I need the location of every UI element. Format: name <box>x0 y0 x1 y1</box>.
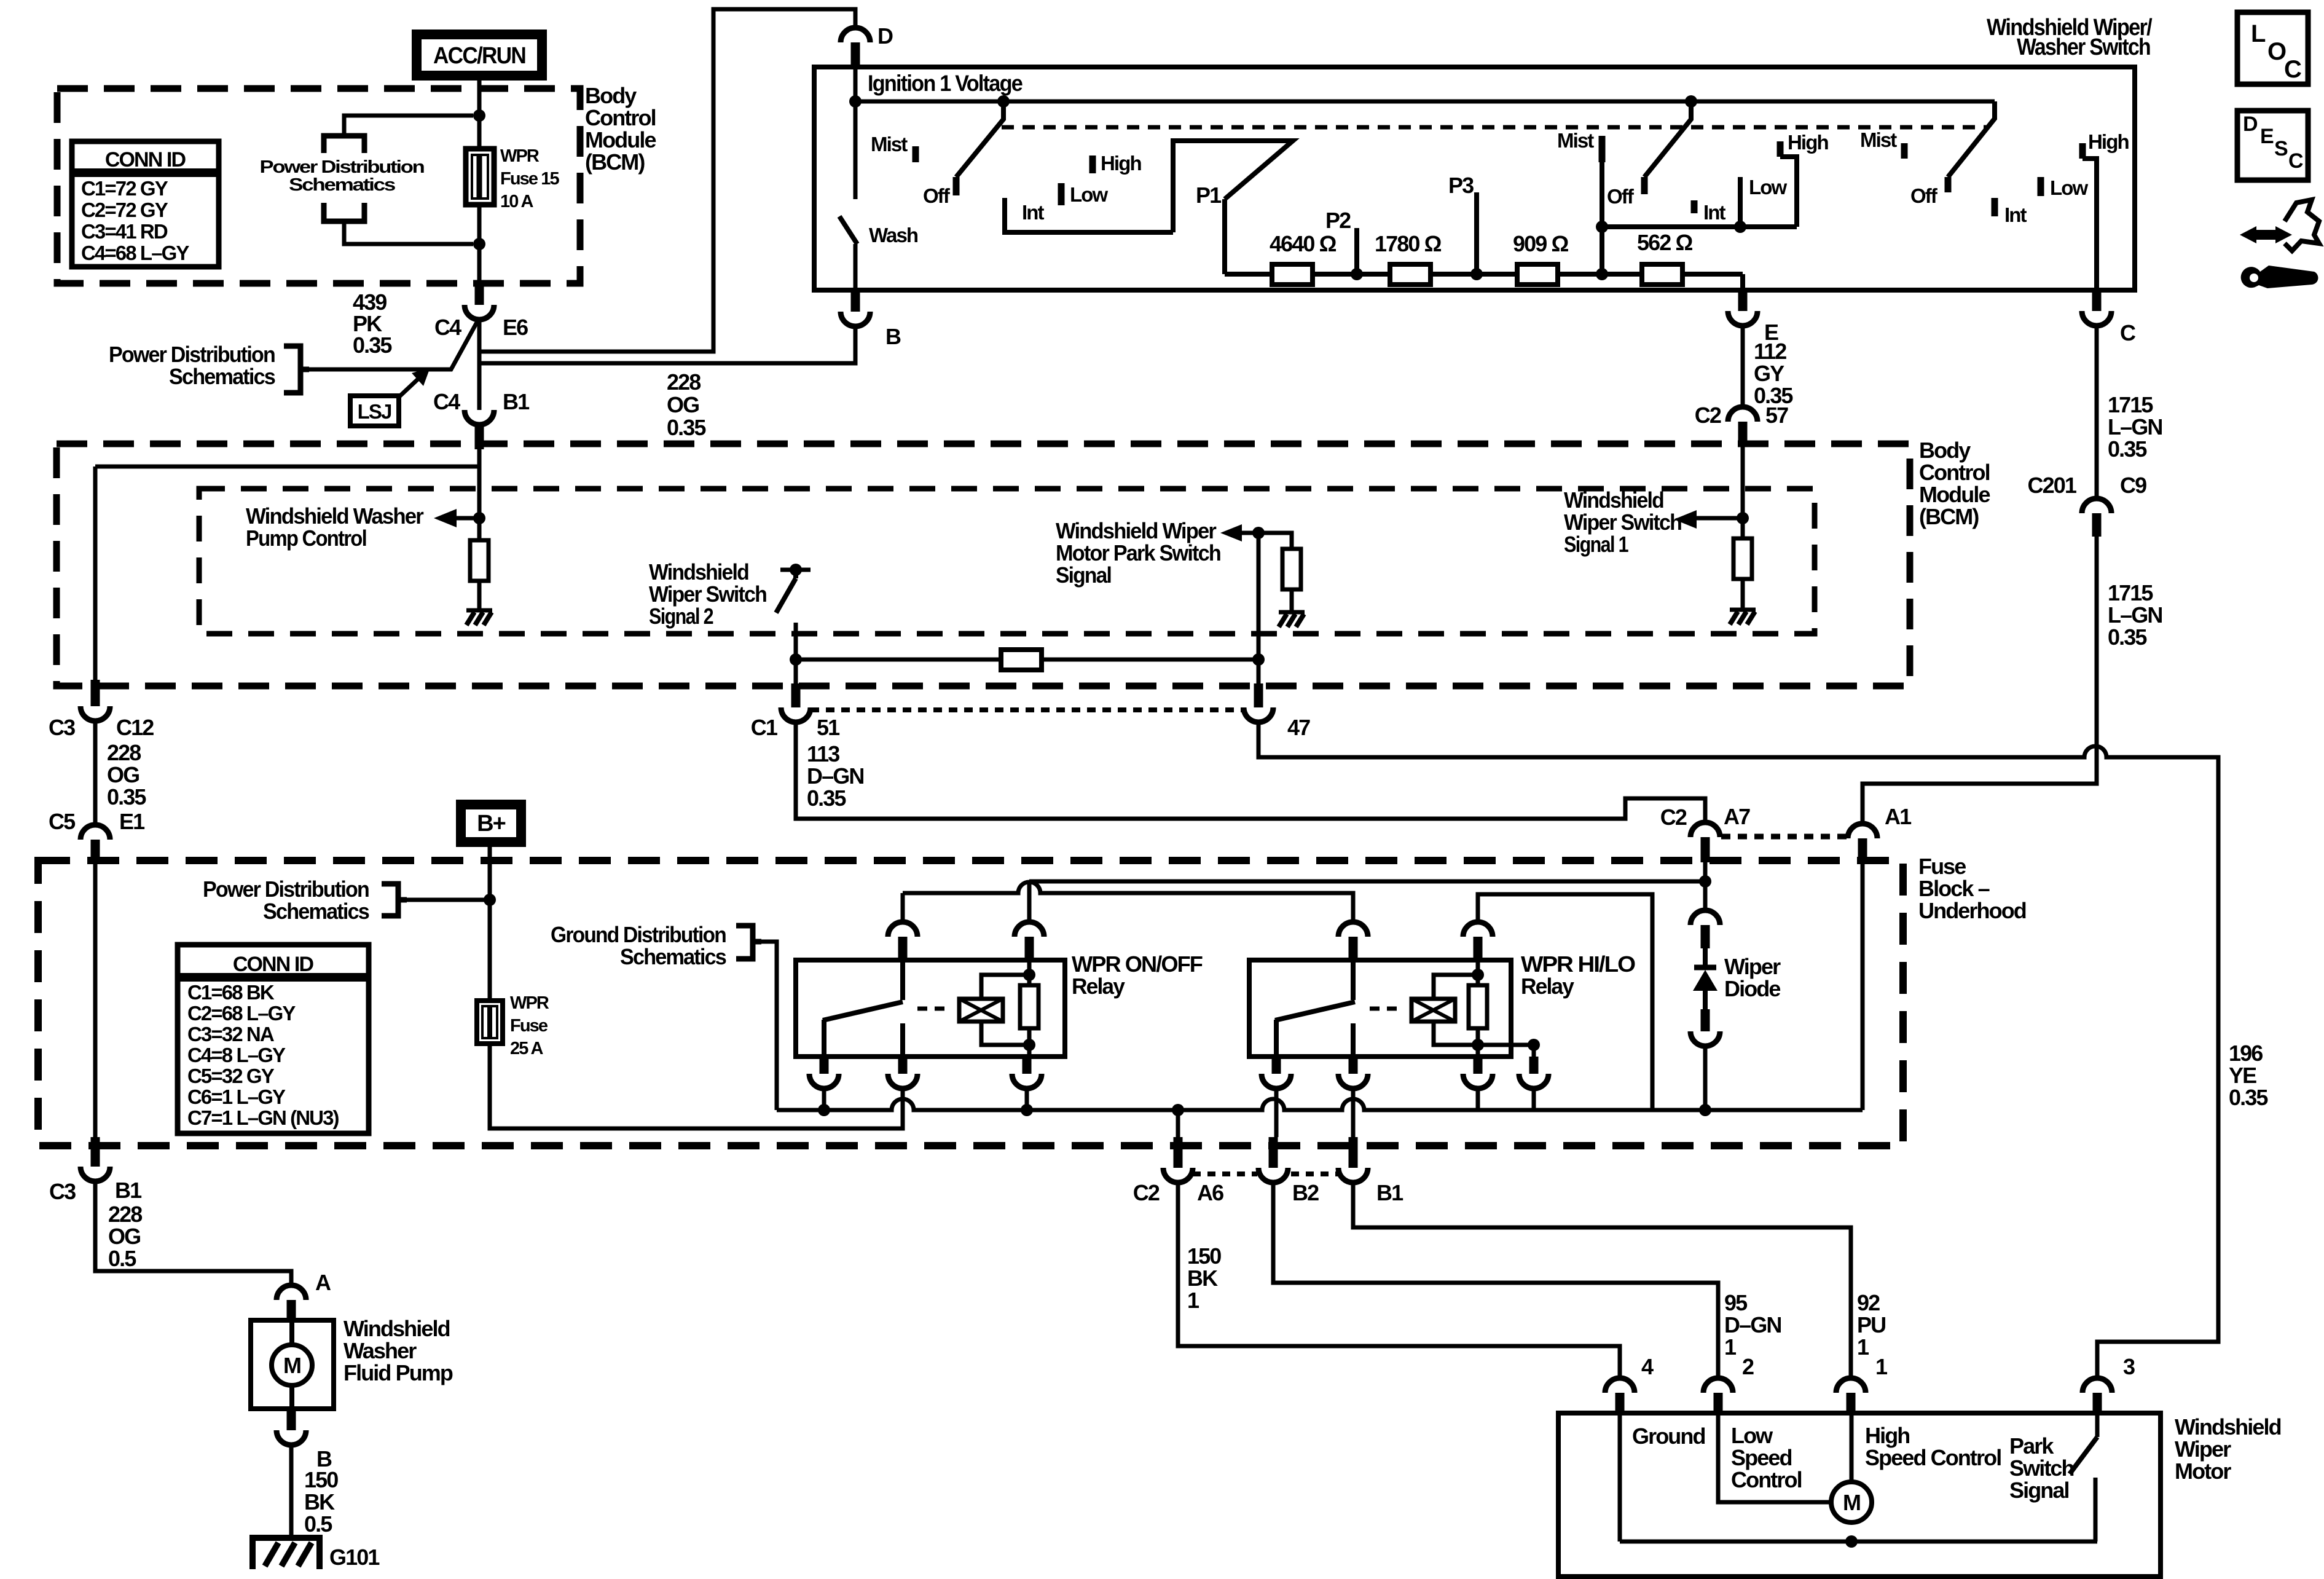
wire HI/LO coil feed loop <box>1478 894 1652 1110</box>
motor pin 2 <box>1703 1378 1733 1393</box>
svg-text:Mist: Mist <box>1860 128 1897 151</box>
svg-text:High: High <box>1101 152 1141 175</box>
svg-text:C9: C9 <box>2120 473 2146 498</box>
svg-text:C1=68 BK: C1=68 BK <box>187 981 275 1004</box>
svg-text:Low: Low <box>1749 176 1788 199</box>
svg-text:E: E <box>2260 125 2274 148</box>
HI/LO coil pin (top B) <box>1463 922 1493 937</box>
connector C4 pin E6 <box>475 284 484 305</box>
wire fuse 25A to relay contact <box>490 1044 903 1128</box>
connector C3 pin C12 <box>91 680 100 706</box>
svg-text:Wiper: Wiper <box>2175 1436 2231 1462</box>
connector tie A7-A1 <box>1721 834 1848 840</box>
wire E to C2-57 <box>1741 326 1745 407</box>
resistor 562 ohm <box>1642 264 1682 285</box>
svg-text:M: M <box>1843 1490 1860 1515</box>
HI/LO coil ground link <box>1478 1045 1534 1057</box>
svg-text:92: 92 <box>1857 1290 1880 1315</box>
resistor (signal 2 line) <box>1001 650 1042 670</box>
power feed box ACC/RUN <box>412 30 547 81</box>
svg-text:Ground: Ground <box>1632 1423 1705 1449</box>
svg-text:2: 2 <box>1742 1354 1754 1379</box>
svg-text:Windshield: Windshield <box>1564 487 1663 513</box>
svg-text:Pump Control: Pump Control <box>246 526 366 551</box>
svg-text:L–GN: L–GN <box>2108 414 2162 439</box>
svg-text:Control: Control <box>1731 1467 1802 1492</box>
svg-text:Diode: Diode <box>1724 976 1780 1001</box>
windshield wiper/washer switch box <box>814 67 2135 290</box>
svg-text:Speed Control: Speed Control <box>1865 1445 2001 1470</box>
splice label LSJ <box>350 396 399 426</box>
HI/LO relay coil resistor <box>1476 960 1480 1057</box>
svg-text:C4=8 L–GY: C4=8 L–GY <box>187 1044 286 1066</box>
svg-text:0.35: 0.35 <box>807 786 846 811</box>
wire ref to splice <box>309 319 479 369</box>
resistor (signal 1) <box>1733 538 1752 579</box>
svg-text:1: 1 <box>1857 1334 1869 1360</box>
wire B2 to motor pin 2 <box>1273 1183 1718 1378</box>
svg-text:YE: YE <box>2229 1063 2256 1088</box>
ground (pump control) <box>466 608 492 613</box>
svg-text:57: 57 <box>1765 403 1788 428</box>
wire C12 branch <box>93 467 98 680</box>
svg-text:C2: C2 <box>1133 1180 1160 1205</box>
pole A Low contact <box>1058 183 1065 205</box>
svg-text:1: 1 <box>1875 1354 1888 1379</box>
svg-text:Switch: Switch <box>2009 1455 2074 1481</box>
svg-text:Park: Park <box>2009 1433 2054 1459</box>
svg-text:B+: B+ <box>477 811 506 837</box>
resistor chain wire <box>1225 272 1743 277</box>
relay coil pin 86 drop <box>1474 1057 1483 1074</box>
svg-text:Off: Off <box>923 184 951 207</box>
svg-text:Windshield: Windshield <box>2175 1414 2281 1439</box>
pole B High contact <box>1777 141 1784 157</box>
svg-text:Motor: Motor <box>2175 1459 2231 1484</box>
svg-text:PU: PU <box>1857 1312 1885 1337</box>
ground G101 <box>253 1538 320 1569</box>
ON/OFF relay coil box <box>959 999 1003 1022</box>
wire C9 to fuse block A1 <box>1863 537 2097 824</box>
pole C High contact to pin C <box>2079 143 2086 159</box>
svg-text:L–GN: L–GN <box>2108 602 2162 628</box>
wire Int bus to P1 arm <box>1173 141 1293 232</box>
resistor (park switch signal) <box>1282 549 1301 589</box>
svg-text:Fuse: Fuse <box>510 1016 548 1036</box>
wire A6 to motor ground pin 4 <box>1178 1183 1620 1378</box>
svg-text:Wiper Switch: Wiper Switch <box>1564 510 1681 535</box>
resistor 909 ohm <box>1517 264 1558 285</box>
wiper diode <box>1703 881 1708 910</box>
svg-text:D: D <box>877 23 893 49</box>
pole C Int contact <box>1992 198 1998 216</box>
svg-text:0.35: 0.35 <box>2229 1085 2268 1110</box>
svg-text:51: 51 <box>817 715 840 740</box>
connector C4 pin B1 <box>465 410 494 425</box>
motor internals <box>1618 1413 1622 1542</box>
svg-text:0.35: 0.35 <box>353 333 392 358</box>
relay contact feed pin (top A) <box>888 922 917 937</box>
svg-text:Washer: Washer <box>343 1338 417 1363</box>
svg-text:10 A: 10 A <box>500 192 534 211</box>
wire E1 through fuse block <box>93 863 98 1137</box>
svg-text:112: 112 <box>1754 339 1786 364</box>
svg-text:Power Distribution: Power Distribution <box>203 876 369 902</box>
svg-text:228: 228 <box>107 740 141 765</box>
svg-text:High: High <box>2088 130 2129 153</box>
svg-text:C12: C12 <box>116 715 154 740</box>
svg-text:Motor Park Switch: Motor Park Switch <box>1056 540 1220 565</box>
svg-text:B1: B1 <box>503 389 530 414</box>
connector C201 pin C9 <box>2082 498 2111 513</box>
svg-text:Power Distribution: Power Distribution <box>260 157 424 177</box>
svg-text:OG: OG <box>667 392 699 417</box>
svg-text:Windshield: Windshield <box>649 559 748 585</box>
svg-text:Relay: Relay <box>1072 974 1125 999</box>
Body Control Module (BCM) dashed box 2 <box>57 444 1910 686</box>
svg-text:Wiper Switch: Wiper Switch <box>649 581 766 607</box>
motor pin 4 <box>1605 1378 1635 1393</box>
relay WPR HI/LO <box>1249 960 1511 1057</box>
svg-text:C3=32 NA: C3=32 NA <box>187 1023 274 1045</box>
coil mechanical link (dashed) <box>917 1007 951 1011</box>
svg-text:Windshield Washer: Windshield Washer <box>246 503 424 529</box>
svg-text:150: 150 <box>304 1467 338 1492</box>
svg-text:D–GN: D–GN <box>807 763 863 789</box>
svg-text:A: A <box>315 1270 331 1295</box>
svg-text:(BCM): (BCM) <box>585 149 645 175</box>
svg-text:B1: B1 <box>1376 1180 1403 1205</box>
wire B1 to pump pin A <box>95 1181 291 1285</box>
svg-text:S: S <box>2274 137 2288 160</box>
pole B Mist contact <box>1599 136 1606 162</box>
P3 contact <box>1470 268 1483 280</box>
connector pin A (washer pump) <box>277 1285 306 1300</box>
svg-text:D–GN: D–GN <box>1724 1312 1781 1337</box>
svg-text:C4: C4 <box>434 315 461 340</box>
svg-text:M: M <box>283 1353 300 1378</box>
svg-text:C5: C5 <box>49 809 76 834</box>
svg-text:CONN ID: CONN ID <box>105 148 186 171</box>
svg-text:C4: C4 <box>433 389 460 414</box>
connector pin B <box>851 290 860 312</box>
pole B Int contact <box>1691 200 1698 213</box>
svg-text:1715: 1715 <box>2108 392 2153 417</box>
resistor 1780 ohm <box>1390 264 1431 285</box>
ON/OFF relay coil resistor <box>1027 960 1032 1057</box>
svg-text:D: D <box>2243 112 2258 136</box>
park switch <box>2095 1413 2100 1437</box>
svg-text:Speed: Speed <box>1731 1445 1792 1470</box>
svg-text:150: 150 <box>1187 1243 1221 1269</box>
HI/LO relay internals: arm <box>1275 1002 1355 1020</box>
svg-text:Wiper: Wiper <box>1724 954 1781 979</box>
svg-text:196: 196 <box>2229 1041 2263 1066</box>
fuse WPR Fuse 15 10A <box>466 149 494 205</box>
wire ground ref to relay bus <box>761 942 777 1110</box>
svg-text:CONN ID: CONN ID <box>233 953 314 976</box>
wire fuse to pin E6 <box>477 205 482 284</box>
svg-text:Control: Control <box>1919 460 1990 485</box>
motor pin 3 <box>2083 1378 2112 1393</box>
relay WPR ON/OFF <box>796 960 1065 1057</box>
svg-text:C1=72 GY: C1=72 GY <box>81 177 168 200</box>
connector tie 51-47 <box>811 707 1244 712</box>
svg-text:1715: 1715 <box>2108 580 2153 605</box>
svg-text:WPR ON/OFF: WPR ON/OFF <box>1072 951 1203 977</box>
svg-text:Fuse: Fuse <box>1918 854 1966 879</box>
ground (park switch signal) <box>1279 610 1305 615</box>
pole B Int bus <box>1602 224 1797 229</box>
svg-text:562 Ω: 562 Ω <box>1637 230 1692 255</box>
svg-text:P3: P3 <box>1448 173 1474 198</box>
svg-text:A6: A6 <box>1197 1180 1223 1205</box>
svg-text:Schematics: Schematics <box>263 899 369 924</box>
svg-text:LSJ: LSJ <box>358 400 391 423</box>
svg-text:ACC/RUN: ACC/RUN <box>433 43 525 69</box>
signal2 resistor line <box>796 658 1258 662</box>
svg-text:0.35: 0.35 <box>107 784 146 809</box>
svg-text:Ground Distribution: Ground Distribution <box>551 922 726 947</box>
relay pin 87A (bottom left) <box>820 1057 829 1074</box>
svg-text:Ignition 1 Voltage: Ignition 1 Voltage <box>868 71 1023 96</box>
svg-text:1780 Ω: 1780 Ω <box>1375 231 1442 256</box>
svg-text:Mist: Mist <box>871 133 908 156</box>
pole A wiper arm <box>956 101 1003 177</box>
relay pin 30 drop (bottom left) <box>1272 1057 1281 1074</box>
wire B1 to motor pin 1 <box>1353 1183 1851 1378</box>
svg-text:G101: G101 <box>329 1545 380 1570</box>
dashed gang line <box>1002 125 1986 130</box>
svg-text:C: C <box>2120 320 2136 345</box>
svg-text:Wash: Wash <box>869 224 918 246</box>
CONN ID table (fuse block) <box>178 945 369 1133</box>
wire E6 to switch pin D <box>479 9 855 352</box>
svg-text:C3: C3 <box>49 1179 76 1204</box>
wire B to G101 <box>289 1445 294 1538</box>
svg-text:C6=1 L–GY: C6=1 L–GY <box>187 1085 286 1108</box>
svg-text:Off: Off <box>1607 185 1635 208</box>
resistor 4640 ohm <box>1272 264 1313 285</box>
pole B wiper arm <box>1644 101 1691 177</box>
svg-text:Low: Low <box>1731 1423 1773 1448</box>
svg-text:GY: GY <box>1754 361 1784 386</box>
svg-text:Mist: Mist <box>1557 129 1594 152</box>
svg-text:C7=1 L–GN (NU3): C7=1 L–GN (NU3) <box>187 1106 339 1129</box>
svg-text:Schematics: Schematics <box>620 944 726 969</box>
svg-text:47: 47 <box>1287 715 1310 740</box>
svg-text:Signal 1: Signal 1 <box>1564 532 1629 557</box>
wire relay link (87 to HI/LO 30) <box>903 882 1353 922</box>
svg-text:4640 Ω: 4640 Ω <box>1270 231 1337 256</box>
junction dot <box>473 238 485 250</box>
svg-text:E6: E6 <box>503 315 528 340</box>
svg-text:909 Ω: 909 Ω <box>1513 231 1568 256</box>
svg-text:C3: C3 <box>49 715 75 740</box>
svg-text:WPR: WPR <box>500 146 540 166</box>
washer pump control wire <box>477 449 482 540</box>
ground (signal 1) <box>1730 608 1756 612</box>
relay coil pin (top B) <box>1015 922 1044 937</box>
svg-text:0.35: 0.35 <box>2108 624 2147 650</box>
svg-text:1: 1 <box>1724 1334 1737 1360</box>
P1 contact <box>1222 199 1227 274</box>
svg-text:113: 113 <box>807 741 839 766</box>
CONN ID table (BCM) <box>72 141 219 267</box>
connector C2 pin A6 <box>1176 1110 1180 1137</box>
svg-text:Body: Body <box>585 83 637 108</box>
svg-text:OG: OG <box>107 762 139 787</box>
svg-text:C3=41 RD: C3=41 RD <box>81 220 168 243</box>
svg-text:B1: B1 <box>115 1178 142 1203</box>
relay pin 87 drop (bottom middle) <box>1349 1057 1358 1074</box>
pole C wiper arm <box>1948 101 1995 177</box>
svg-text:C2=68 L–GY: C2=68 L–GY <box>187 1002 296 1025</box>
relay output bus (lower) <box>777 1099 1863 1110</box>
svg-text:Int: Int <box>2004 203 2027 226</box>
connector pin E <box>1738 290 1748 311</box>
svg-text:Underhood: Underhood <box>1918 898 2026 923</box>
svg-text:4: 4 <box>1641 1354 1654 1379</box>
svg-text:Off: Off <box>1910 184 1938 207</box>
connector tie A6-B2-B1 <box>1193 1171 1257 1176</box>
connector pin 47 <box>1254 683 1263 707</box>
connector C5 pin E1 <box>80 825 110 840</box>
svg-text:E1: E1 <box>119 809 145 834</box>
svg-text:C: C <box>2288 149 2303 173</box>
svg-text:C201: C201 <box>2028 473 2077 498</box>
pole C Low contact <box>2038 177 2044 196</box>
junction dot <box>473 109 485 122</box>
pole A Int contact <box>1005 198 1173 232</box>
svg-text:0.35: 0.35 <box>2108 436 2147 462</box>
svg-text:Module: Module <box>585 127 656 152</box>
svg-text:L: L <box>2251 20 2266 47</box>
svg-text:Schematics: Schematics <box>289 175 395 195</box>
svg-text:OG: OG <box>108 1224 140 1249</box>
svg-text:Washer Switch: Washer Switch <box>2017 34 2150 60</box>
svg-text:Low: Low <box>2050 176 2089 199</box>
wire C12 to E1 <box>93 721 98 825</box>
connector pin B (washer pump) <box>287 1409 296 1430</box>
svg-text:(BCM): (BCM) <box>1919 504 1979 529</box>
windshield wiper motor box <box>1558 1413 2161 1577</box>
svg-text:Windshield Wiper: Windshield Wiper <box>1056 518 1217 543</box>
BCM inner dashed box <box>199 489 1815 634</box>
svg-text:0.5: 0.5 <box>304 1511 332 1537</box>
relay pin 85 drop <box>1529 1057 1539 1074</box>
svg-text:Block –: Block – <box>1918 876 1990 901</box>
wire B+ down <box>488 847 492 1001</box>
arrow windshield washer pump control <box>473 512 485 524</box>
off-page ref Power Distribution Schematics (top) <box>324 136 364 153</box>
fuse block underhood dashed box <box>38 860 1903 1146</box>
icon DESC <box>2237 111 2308 180</box>
HI/LO relay coil box <box>1411 999 1455 1022</box>
wire 47 to motor pin 3 (196 YE) <box>1258 722 2218 1378</box>
svg-text:Power Distribution: Power Distribution <box>109 342 275 367</box>
pole C Mist contact <box>1901 143 1908 159</box>
connector pin D <box>841 28 870 42</box>
svg-text:High: High <box>1788 131 1828 154</box>
svg-text:Schematics: Schematics <box>169 364 275 389</box>
ignition bus wire <box>855 100 1995 104</box>
svg-text:O: O <box>2267 38 2286 65</box>
svg-text:WPR HI/LO: WPR HI/LO <box>1521 951 1635 977</box>
svg-text:0.35: 0.35 <box>667 415 706 440</box>
wire E6 to B1 <box>477 320 482 410</box>
svg-text:C4=68 L–GY: C4=68 L–GY <box>81 242 189 264</box>
svg-text:P2: P2 <box>1325 208 1351 233</box>
svg-text:P1: P1 <box>1196 183 1222 208</box>
connector pin B1 (fuse block) <box>1349 1137 1358 1168</box>
wire 51 to fuse block C2 <box>796 722 1705 822</box>
connector C3 pin B1 (washer) <box>91 1137 100 1167</box>
svg-text:C2: C2 <box>1695 403 1721 428</box>
svg-text:A7: A7 <box>1724 804 1750 829</box>
wash switch <box>854 101 858 199</box>
motor pin 1 <box>1836 1378 1866 1393</box>
svg-text:95: 95 <box>1724 1290 1748 1315</box>
HI/LO contact feed pin (top A) <box>1338 922 1368 937</box>
svg-text:Windshield: Windshield <box>343 1316 450 1341</box>
svg-text:Body: Body <box>1919 438 1971 463</box>
svg-text:C5=32 GY: C5=32 GY <box>187 1065 275 1087</box>
svg-text:228: 228 <box>108 1202 142 1227</box>
svg-text:Int: Int <box>1022 201 1045 224</box>
relay pin 85 (bottom right) <box>1023 1057 1032 1074</box>
svg-text:Signal: Signal <box>2009 1478 2069 1503</box>
resistor (pump control) <box>470 540 489 581</box>
wire ACC/RUN down <box>477 81 482 151</box>
svg-text:Relay: Relay <box>1521 974 1574 999</box>
svg-text:Fluid Pump: Fluid Pump <box>343 1360 453 1385</box>
svg-text:C1: C1 <box>751 715 778 740</box>
svg-text:25 A: 25 A <box>510 1039 544 1058</box>
pole B Low contact <box>1738 177 1743 227</box>
svg-text:Signal: Signal <box>1056 562 1111 588</box>
svg-text:B2: B2 <box>1292 1180 1319 1205</box>
svg-text:High: High <box>1865 1423 1909 1448</box>
wire C to C201 <box>2095 326 2099 498</box>
svg-text:Signal 2: Signal 2 <box>649 604 713 629</box>
Body Control Module (BCM) dashed box top <box>57 89 580 283</box>
P2 contact <box>1351 268 1363 280</box>
icon tool arrow <box>2249 230 2283 240</box>
svg-text:A1: A1 <box>1885 804 1912 829</box>
icon LOC <box>2237 12 2308 84</box>
svg-text:0.5: 0.5 <box>108 1246 136 1271</box>
svg-text:Low: Low <box>1070 183 1109 206</box>
svg-text:3: 3 <box>2123 1354 2135 1379</box>
power feed box B+ <box>456 800 526 847</box>
connector C1 pin 51 <box>791 683 801 707</box>
relay control bus from BCM C2/A7 <box>1029 880 1705 884</box>
svg-text:Control: Control <box>585 105 656 130</box>
connector pin C <box>2092 290 2102 311</box>
svg-text:BK: BK <box>304 1489 335 1514</box>
connector pin B2 <box>1269 1137 1278 1168</box>
wire 57 into BCM <box>1741 447 1745 518</box>
pole A Mist contact <box>913 146 919 162</box>
svg-text:Fuse 15: Fuse 15 <box>500 169 559 189</box>
arrow LSJ <box>399 379 418 397</box>
svg-text:Int: Int <box>1703 201 1726 224</box>
svg-text:C2: C2 <box>1660 805 1687 830</box>
coil mechanical link (dashed) <box>1370 1007 1403 1011</box>
fuse WPR Fuse 25A <box>477 1001 503 1044</box>
wire A1 to relay output bus <box>1861 862 1865 1110</box>
